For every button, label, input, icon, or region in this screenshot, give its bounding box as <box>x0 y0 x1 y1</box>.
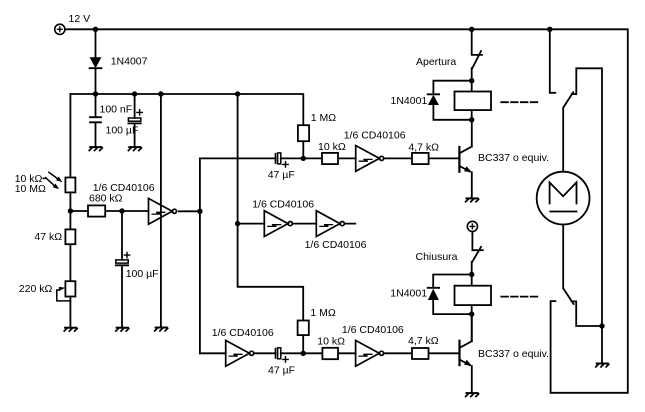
svg-text:Apertura: Apertura <box>416 56 456 68</box>
svg-text:47 µF: 47 µF <box>268 365 295 377</box>
svg-text:100 µF: 100 µF <box>126 268 159 280</box>
svg-text:10 MΩ: 10 MΩ <box>15 183 46 195</box>
svg-text:220 kΩ: 220 kΩ <box>19 283 53 295</box>
svg-text:Chiusura: Chiusura <box>416 251 458 263</box>
svg-text:BC337 o equiv.: BC337 o equiv. <box>478 348 549 360</box>
svg-text:10 kΩ: 10 kΩ <box>317 336 345 348</box>
svg-text:100 nF: 100 nF <box>100 104 133 116</box>
svg-text:4,7 kΩ: 4,7 kΩ <box>408 141 439 153</box>
svg-text:1/6 CD40106: 1/6 CD40106 <box>252 198 314 210</box>
svg-text:1/6 CD40106: 1/6 CD40106 <box>342 324 404 336</box>
svg-text:1/6 CD40106: 1/6 CD40106 <box>344 130 406 142</box>
svg-text:12 V: 12 V <box>69 13 91 25</box>
svg-text:100 µF: 100 µF <box>106 125 139 137</box>
svg-text:1N4007: 1N4007 <box>111 55 148 67</box>
svg-text:680 kΩ: 680 kΩ <box>89 193 123 205</box>
svg-text:1/6 CD40106: 1/6 CD40106 <box>305 239 367 251</box>
svg-text:4,7 kΩ: 4,7 kΩ <box>408 335 439 347</box>
svg-text:1 MΩ: 1 MΩ <box>311 112 337 124</box>
svg-text:10 kΩ: 10 kΩ <box>318 141 346 153</box>
svg-text:1N4001: 1N4001 <box>391 95 428 107</box>
svg-text:1N4001: 1N4001 <box>390 288 427 300</box>
svg-text:47 µF: 47 µF <box>268 169 295 181</box>
svg-text:1/6 CD40106: 1/6 CD40106 <box>212 327 274 339</box>
svg-text:BC337 o equiv.: BC337 o equiv. <box>478 152 549 164</box>
svg-text:47 kΩ: 47 kΩ <box>34 231 62 243</box>
svg-text:1 MΩ: 1 MΩ <box>310 307 336 319</box>
